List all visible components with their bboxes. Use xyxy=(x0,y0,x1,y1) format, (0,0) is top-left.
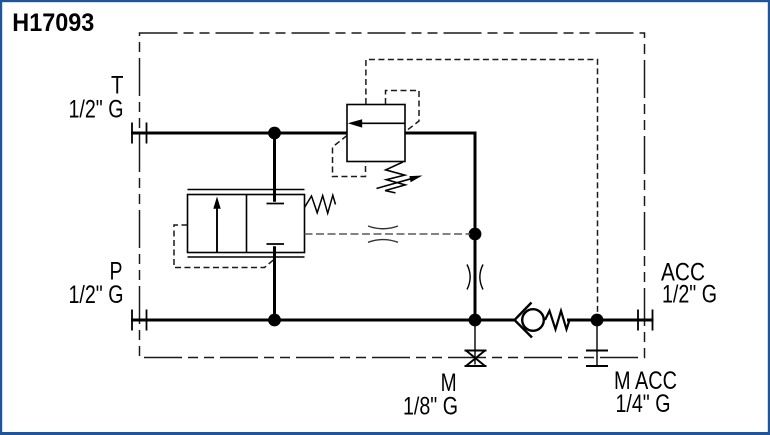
wire: top bus T line xyxy=(131,132,348,135)
check valve CV1 ball circle xyxy=(522,309,544,331)
manifold enclosure dashed boundary xyxy=(140,33,645,358)
svg-text:H17093: H17093 xyxy=(12,9,94,37)
port M closed symbol X with bars xyxy=(465,351,487,367)
wire: bottom bus P to check valve xyxy=(131,319,515,322)
svg-text:1/8" G: 1/8" G xyxy=(403,393,458,421)
directional valve V2 blocked port top bar xyxy=(267,203,285,205)
directional valve V2 upper parallel line xyxy=(188,189,305,191)
relief valve V1 adjustment arrow xyxy=(377,176,423,189)
directional valve V2 cell divider xyxy=(246,195,248,253)
svg-text:1/2" G: 1/2" G xyxy=(69,95,124,123)
svg-text:1/2" G: 1/2" G xyxy=(662,281,717,309)
wire: valve bottom port to bottom bus xyxy=(273,246,276,320)
port M ACC stub line xyxy=(596,320,598,366)
relief valve V1 spring xyxy=(385,162,405,193)
node: riser bottom junction xyxy=(469,314,482,327)
directional valve V2 body xyxy=(188,195,305,253)
pilot line: valve to riser with orifice xyxy=(305,233,471,235)
node: M ACC junction xyxy=(591,314,604,327)
relief valve V1 body xyxy=(347,105,405,162)
wire: bottom bus check valve to ACC xyxy=(567,319,654,322)
wire: relief outlet to right riser xyxy=(405,133,476,320)
wire: drop from top bus to valve top port xyxy=(273,133,276,202)
pilot line: relief top to outlet port xyxy=(386,91,420,132)
svg-text:1/4" G: 1/4" G xyxy=(616,390,671,418)
orifice O1 arcs on pilot line xyxy=(368,226,398,242)
relief valve V1 flow arrow xyxy=(348,119,405,127)
directional valve V2 lower parallel line xyxy=(188,256,305,258)
blue page frame bottom thickening xyxy=(0,432,770,435)
check valve CV1 seat xyxy=(515,303,533,338)
node: bottom bus junction left xyxy=(268,314,281,327)
pilot line: valve left control loop xyxy=(174,225,275,268)
pilot line: relief inlet to spring chamber xyxy=(333,136,366,177)
orifice O2 arcs on riser xyxy=(467,265,483,290)
port T crossing ticks xyxy=(132,123,147,144)
port M stub line xyxy=(474,320,476,365)
check valve CV1 spring xyxy=(545,311,570,330)
node: top bus junction xyxy=(268,127,281,140)
node: riser pilot junction xyxy=(469,228,482,241)
directional valve V2 blocked port bottom bar xyxy=(267,243,285,245)
directional valve V2 spring xyxy=(305,195,336,213)
port P crossing ticks xyxy=(132,310,147,331)
port ACC crossing ticks xyxy=(638,310,653,331)
port M ACC plug bars xyxy=(586,351,608,367)
pilot line: relief remote to M ACC junction xyxy=(366,60,598,316)
svg-text:1/2" G: 1/2" G xyxy=(69,281,124,309)
directional valve V2 open position arrow xyxy=(213,197,220,253)
